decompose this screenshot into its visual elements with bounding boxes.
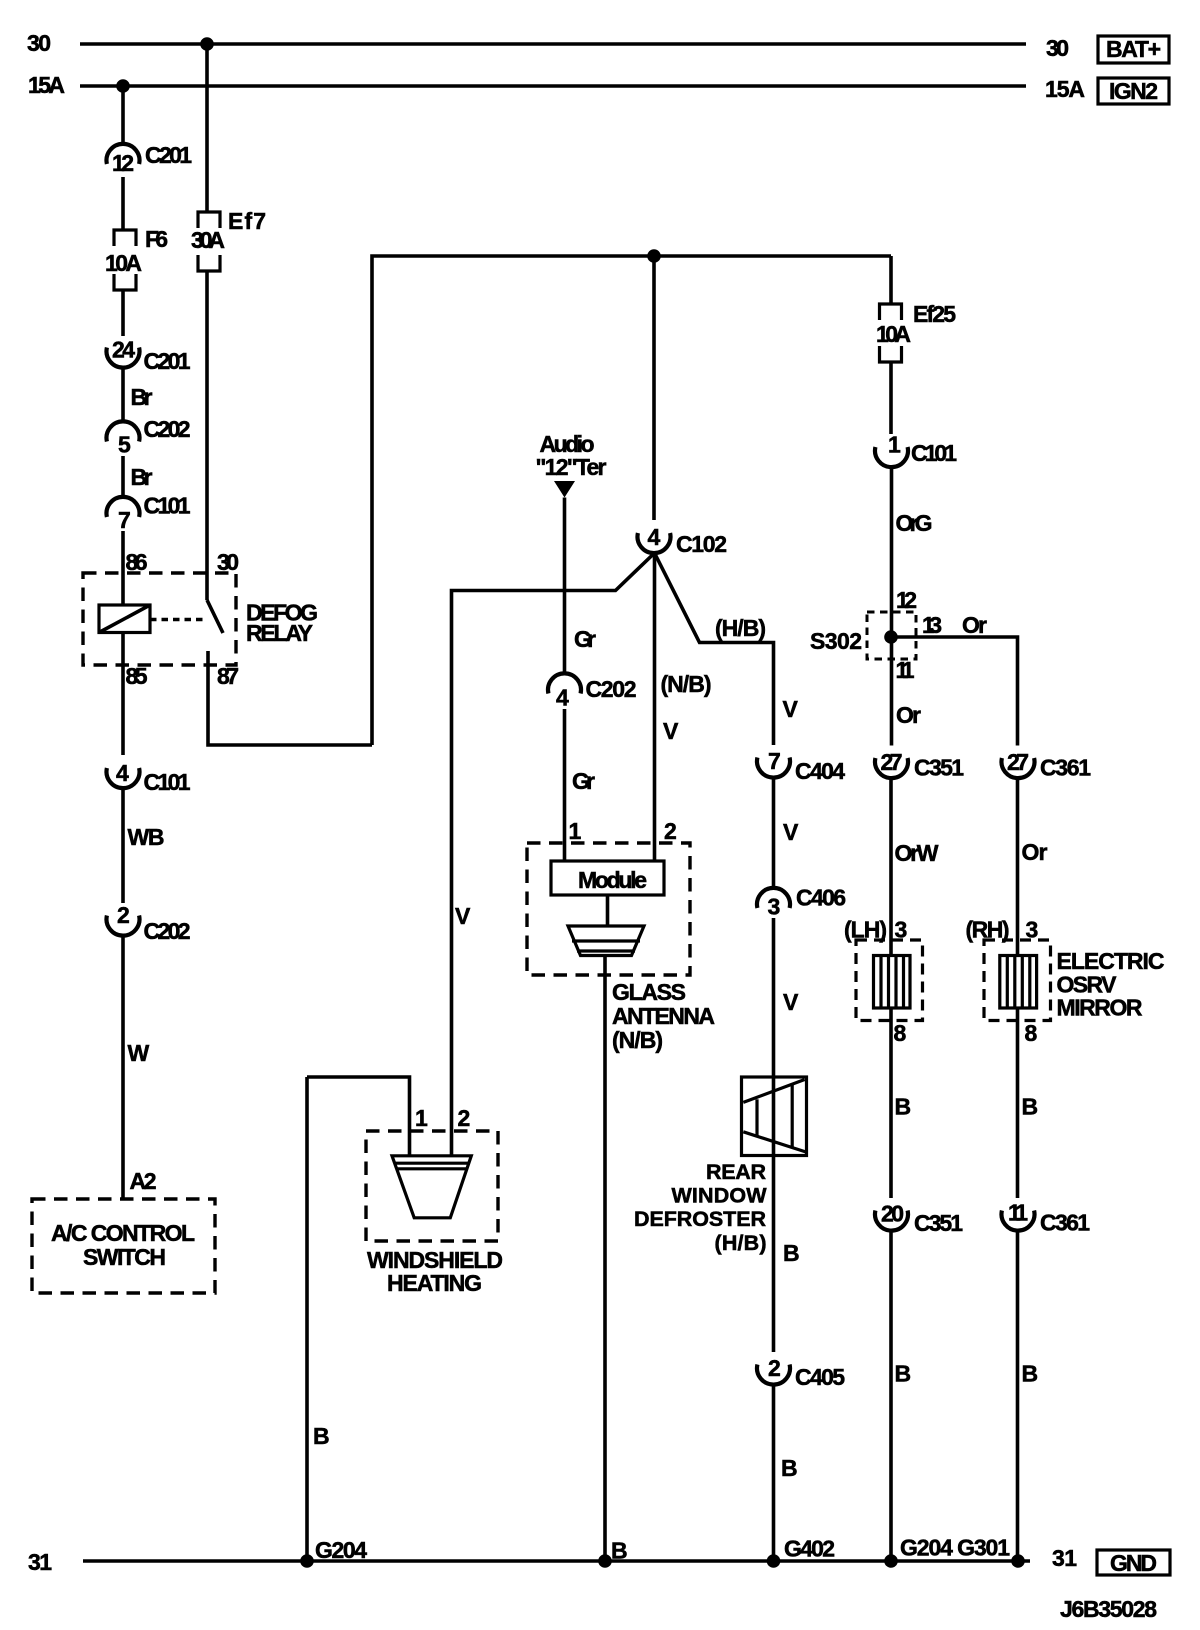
svg-text:"12"Ter: "12"Ter bbox=[536, 454, 607, 480]
svg-text:(H/B): (H/B) bbox=[715, 615, 766, 641]
connector C202 pin 4 (cap) bbox=[548, 673, 581, 693]
svg-text:BAT+: BAT+ bbox=[1106, 36, 1161, 62]
svg-text:SWITCH: SWITCH bbox=[83, 1244, 166, 1270]
svg-text:(N/B): (N/B) bbox=[612, 1027, 663, 1053]
junction antenna B bbox=[598, 1554, 612, 1568]
svg-text:C102: C102 bbox=[676, 531, 727, 557]
svg-text:IGN2: IGN2 bbox=[1109, 78, 1158, 104]
wire C351-20 to ground bus, colour B bbox=[889, 1231, 893, 1561]
node IGN2 box bbox=[1098, 78, 1169, 104]
wire defroster to C405-2, colour B bbox=[772, 1156, 776, 1353]
wire relay 85 down to connector C101-4 bbox=[121, 633, 125, 756]
connector C101 pin 7 (cap) bbox=[107, 497, 140, 517]
svg-text:OrW: OrW bbox=[895, 840, 939, 866]
svg-text:C405: C405 bbox=[795, 1364, 845, 1390]
connector C361 pin 11 (cup) bbox=[1002, 1211, 1035, 1231]
wire ground branch to windshield pin 1 bbox=[307, 1077, 410, 1155]
svg-text:HEATING: HEATING bbox=[387, 1270, 482, 1296]
antenna element symbol bbox=[568, 926, 644, 956]
wire bus 15A (IGN2) bbox=[80, 84, 1026, 88]
svg-text:F6: F6 bbox=[145, 226, 168, 252]
connector C202 pin 5 (cap) bbox=[107, 421, 140, 441]
node GND box bbox=[1097, 1550, 1170, 1575]
svg-text:C351: C351 bbox=[914, 755, 964, 781]
junction G204 right bbox=[884, 1554, 898, 1568]
wire C202-2 to A/C control switch, colour W bbox=[121, 936, 125, 1200]
wire F6 to connector C201-24 bbox=[121, 290, 125, 336]
wire S302 to RH mirror branch bbox=[891, 637, 1018, 746]
svg-text:24: 24 bbox=[112, 337, 135, 363]
svg-text:4: 4 bbox=[648, 524, 661, 550]
fuse Ef25 10A bbox=[880, 304, 902, 320]
svg-text:C202: C202 bbox=[144, 416, 191, 442]
LH mirror dashed box bbox=[856, 940, 923, 1021]
wire 15A bus down to connector C201-12 bbox=[121, 86, 125, 146]
defog relay dashed box bbox=[83, 573, 236, 665]
svg-text:1: 1 bbox=[415, 1105, 428, 1131]
wire module to antenna element bbox=[606, 895, 610, 926]
junction G402 bbox=[767, 1554, 781, 1568]
relay switch blade (open) bbox=[207, 600, 223, 633]
svg-text:J6B35028: J6B35028 bbox=[1060, 1596, 1157, 1622]
svg-text:ELECTRIC: ELECTRIC bbox=[1057, 948, 1165, 974]
node BAT+ box bbox=[1098, 36, 1169, 63]
svg-text:Or: Or bbox=[896, 702, 921, 728]
glass antenna dashed box bbox=[527, 843, 690, 975]
wire C202-4 to glass antenna module pin 1, colour Gr bbox=[563, 709, 567, 861]
svg-text:2: 2 bbox=[664, 818, 677, 844]
svg-text:WINDOW: WINDOW bbox=[672, 1184, 768, 1208]
svg-text:Ef7: Ef7 bbox=[228, 208, 266, 234]
connector C351 pin 27 (cup) bbox=[875, 758, 908, 778]
svg-text:1: 1 bbox=[888, 432, 901, 458]
A/C control switch dashed box bbox=[32, 1199, 215, 1293]
svg-text:20: 20 bbox=[881, 1201, 904, 1227]
svg-text:C202: C202 bbox=[144, 918, 191, 944]
wire audio to connector C202-4, colour Gr bbox=[563, 498, 567, 675]
wire C101-1 to splice S302, colour OrG bbox=[890, 467, 894, 746]
svg-text:C404: C404 bbox=[795, 758, 845, 784]
wire Ef7 to relay switch pin 30 bbox=[205, 271, 209, 600]
svg-text:C201: C201 bbox=[144, 348, 191, 374]
svg-text:DEFROSTER: DEFROSTER bbox=[634, 1207, 766, 1231]
connector C351 pin 20 (cup) bbox=[875, 1211, 908, 1231]
wire windshield heating pin 1 side to ground bus, colour B bbox=[305, 1077, 309, 1561]
svg-text:Module: Module bbox=[578, 867, 647, 893]
svg-text:15A: 15A bbox=[1045, 76, 1085, 102]
svg-text:3: 3 bbox=[768, 894, 781, 920]
LH mirror heater element bbox=[874, 956, 911, 1009]
svg-text:27: 27 bbox=[1007, 749, 1029, 775]
junction on bus 30 at Ef7 branch bbox=[200, 37, 214, 51]
svg-text:85: 85 bbox=[126, 663, 148, 689]
svg-text:4: 4 bbox=[116, 760, 129, 786]
connector C405 pin 2 (cup) bbox=[757, 1365, 790, 1385]
svg-text:C361: C361 bbox=[1040, 755, 1091, 781]
svg-text:30: 30 bbox=[27, 30, 51, 56]
fuse F6 10A bbox=[114, 230, 136, 246]
relay coil bbox=[99, 605, 150, 633]
svg-text:86: 86 bbox=[126, 549, 148, 575]
svg-text:2: 2 bbox=[458, 1105, 471, 1131]
svg-text:B: B bbox=[895, 1094, 912, 1120]
svg-text:12: 12 bbox=[896, 587, 917, 613]
svg-text:C101: C101 bbox=[144, 493, 191, 519]
svg-text:15A: 15A bbox=[28, 72, 65, 98]
svg-text:V: V bbox=[783, 989, 799, 1015]
svg-text:(H/B): (H/B) bbox=[715, 1231, 767, 1255]
svg-text:V: V bbox=[783, 696, 799, 722]
wire C101-4 to C202-2, colour WB bbox=[121, 788, 125, 903]
RH mirror dashed box bbox=[984, 940, 1051, 1021]
svg-text:31: 31 bbox=[28, 1549, 52, 1575]
svg-text:C406: C406 bbox=[796, 885, 846, 911]
wire C361-11 to ground bus, colour B bbox=[1016, 1231, 1020, 1561]
svg-text:4: 4 bbox=[556, 685, 569, 711]
svg-text:S302: S302 bbox=[810, 628, 862, 654]
connector C101 pin 1 (cup) bbox=[875, 447, 908, 467]
svg-text:12: 12 bbox=[112, 150, 134, 176]
svg-text:W: W bbox=[128, 1040, 150, 1066]
junction S302 bbox=[884, 630, 898, 644]
svg-text:WB: WB bbox=[128, 824, 165, 850]
svg-text:C201: C201 bbox=[145, 142, 192, 168]
wire C406-3 to defroster element, colour V bbox=[772, 918, 776, 1077]
connector C201 pin 24 (cup) bbox=[107, 348, 140, 368]
svg-text:27: 27 bbox=[881, 749, 903, 775]
wire C102 to glass antenna module pin 2 bbox=[653, 553, 657, 861]
wire Ef25 to connector C101-1 bbox=[889, 362, 893, 434]
wire LH mirror to C351-20, colour B bbox=[889, 1008, 893, 1198]
svg-text:Gr: Gr bbox=[572, 768, 595, 794]
svg-text:B: B bbox=[1022, 1094, 1039, 1120]
svg-text:B: B bbox=[1022, 1361, 1039, 1387]
connector C101 pin 4 (cup) bbox=[107, 768, 140, 788]
svg-text:Gr: Gr bbox=[574, 626, 596, 652]
junction G301 bbox=[1011, 1554, 1025, 1568]
svg-text:11: 11 bbox=[1008, 1200, 1028, 1226]
svg-text:7: 7 bbox=[768, 748, 781, 774]
wire RH mirror to C361-11, colour B bbox=[1016, 1008, 1020, 1198]
svg-text:Or: Or bbox=[962, 612, 987, 638]
svg-text:B: B bbox=[783, 1240, 800, 1266]
rear window defroster element symbol bbox=[742, 1077, 807, 1156]
connector C404 pin 7 (cup) bbox=[757, 758, 790, 778]
svg-text:10A: 10A bbox=[105, 250, 142, 276]
svg-text:REAR: REAR bbox=[706, 1160, 766, 1184]
svg-text:B: B bbox=[313, 1423, 330, 1449]
wire C201-24 to C202-5, colour Br bbox=[121, 368, 125, 424]
wire C404-7 to C406-3, colour V bbox=[772, 778, 776, 889]
svg-text:G204 G301: G204 G301 bbox=[900, 1535, 1010, 1561]
svg-text:1: 1 bbox=[569, 818, 582, 844]
svg-text:7: 7 bbox=[118, 507, 131, 533]
windshield heating dashed box bbox=[366, 1131, 498, 1241]
wire top rail down to connector C102-4 bbox=[652, 256, 656, 520]
svg-text:11: 11 bbox=[896, 657, 915, 683]
wire C202-5 to C101-7, colour Br bbox=[121, 456, 125, 498]
svg-text:Ef25: Ef25 bbox=[913, 301, 956, 327]
svg-text:31: 31 bbox=[1052, 1545, 1077, 1571]
wire bus 31 (GND) bbox=[83, 1559, 1030, 1563]
wire C361-27 to RH mirror element, colour Or bbox=[1016, 779, 1020, 956]
wire antenna element to ground bus, colour B bbox=[603, 956, 607, 1562]
svg-text:C101: C101 bbox=[144, 769, 191, 795]
connector C406 pin 3 (cap) bbox=[757, 888, 790, 908]
svg-text:B: B bbox=[781, 1455, 798, 1481]
wire relay 87 down, right, up to top rail bbox=[208, 651, 372, 745]
svg-text:5: 5 bbox=[118, 432, 131, 458]
svg-text:A/C CONTROL: A/C CONTROL bbox=[51, 1220, 195, 1246]
wire C101-7 to defog relay pin 86 bbox=[121, 531, 125, 605]
wire C102 to windshield heating pin 2 bbox=[452, 553, 655, 1155]
svg-text:V: V bbox=[455, 903, 471, 929]
svg-text:10A: 10A bbox=[876, 321, 911, 347]
svg-text:ANTENNA: ANTENNA bbox=[612, 1003, 715, 1029]
wire C102 to rear window defroster (H/B) bbox=[655, 553, 774, 745]
svg-text:Or: Or bbox=[1022, 839, 1048, 865]
svg-text:13: 13 bbox=[922, 612, 942, 638]
svg-text:C361: C361 bbox=[1040, 1210, 1090, 1236]
relay coil-contact dashed link bbox=[150, 618, 206, 621]
wire C351-27 to LH mirror element, colour OrW bbox=[889, 779, 893, 956]
connector C202 pin 2 (cup) bbox=[107, 916, 140, 936]
svg-text:87: 87 bbox=[217, 663, 239, 689]
svg-text:MIRROR: MIRROR bbox=[1057, 995, 1143, 1021]
svg-text:G402: G402 bbox=[784, 1536, 835, 1562]
svg-text:Br: Br bbox=[131, 464, 153, 490]
svg-text:GND: GND bbox=[1110, 1550, 1157, 1576]
svg-text:30A: 30A bbox=[191, 227, 225, 253]
svg-text:2: 2 bbox=[117, 902, 130, 928]
wire top rail corner down to fuse Ef25 bbox=[889, 256, 893, 304]
fuse Ef7 30A bbox=[198, 212, 220, 228]
svg-text:30: 30 bbox=[1046, 35, 1069, 61]
connector C201 pin 12 (cap) bbox=[107, 144, 140, 164]
wire C405-2 to ground bus, colour B bbox=[772, 1385, 776, 1562]
junction on bus 15A at C201 branch bbox=[116, 79, 130, 93]
RH mirror heater element bbox=[1000, 956, 1037, 1009]
connector C102 pin 4 (cup) bbox=[638, 533, 671, 553]
junction G204 (windshield) bbox=[300, 1554, 314, 1568]
svg-text:G204: G204 bbox=[315, 1537, 367, 1563]
junction at C102 feed bbox=[647, 249, 661, 263]
svg-text:V: V bbox=[663, 718, 679, 744]
svg-text:30: 30 bbox=[217, 549, 239, 575]
wire bus 30 down to fuse Ef7 bbox=[205, 44, 209, 212]
svg-text:B: B bbox=[895, 1361, 912, 1387]
wire bus 30 (BAT+) bbox=[80, 42, 1026, 46]
svg-text:2: 2 bbox=[768, 1355, 781, 1381]
module box bbox=[551, 861, 664, 895]
svg-text:OrG: OrG bbox=[896, 510, 933, 536]
wire C201-12 to fuse F6 bbox=[121, 177, 125, 230]
windshield element symbol bbox=[392, 1156, 471, 1218]
svg-text:8: 8 bbox=[894, 1020, 907, 1046]
svg-text:A2: A2 bbox=[130, 1168, 157, 1194]
svg-text:GLASS: GLASS bbox=[612, 979, 686, 1005]
audio feed triangle bbox=[554, 481, 575, 498]
splice S302 dashed box bbox=[867, 612, 916, 659]
svg-text:(N/B): (N/B) bbox=[661, 671, 712, 697]
svg-text:C351: C351 bbox=[914, 1210, 963, 1236]
svg-text:V: V bbox=[783, 819, 799, 845]
svg-text:8: 8 bbox=[1025, 1020, 1038, 1046]
svg-text:C101: C101 bbox=[911, 440, 957, 466]
svg-text:Br: Br bbox=[131, 384, 153, 410]
connector C361 pin 27 (cup) bbox=[1002, 758, 1035, 778]
svg-text:RELAY: RELAY bbox=[246, 620, 313, 646]
svg-text:C202: C202 bbox=[586, 676, 637, 702]
